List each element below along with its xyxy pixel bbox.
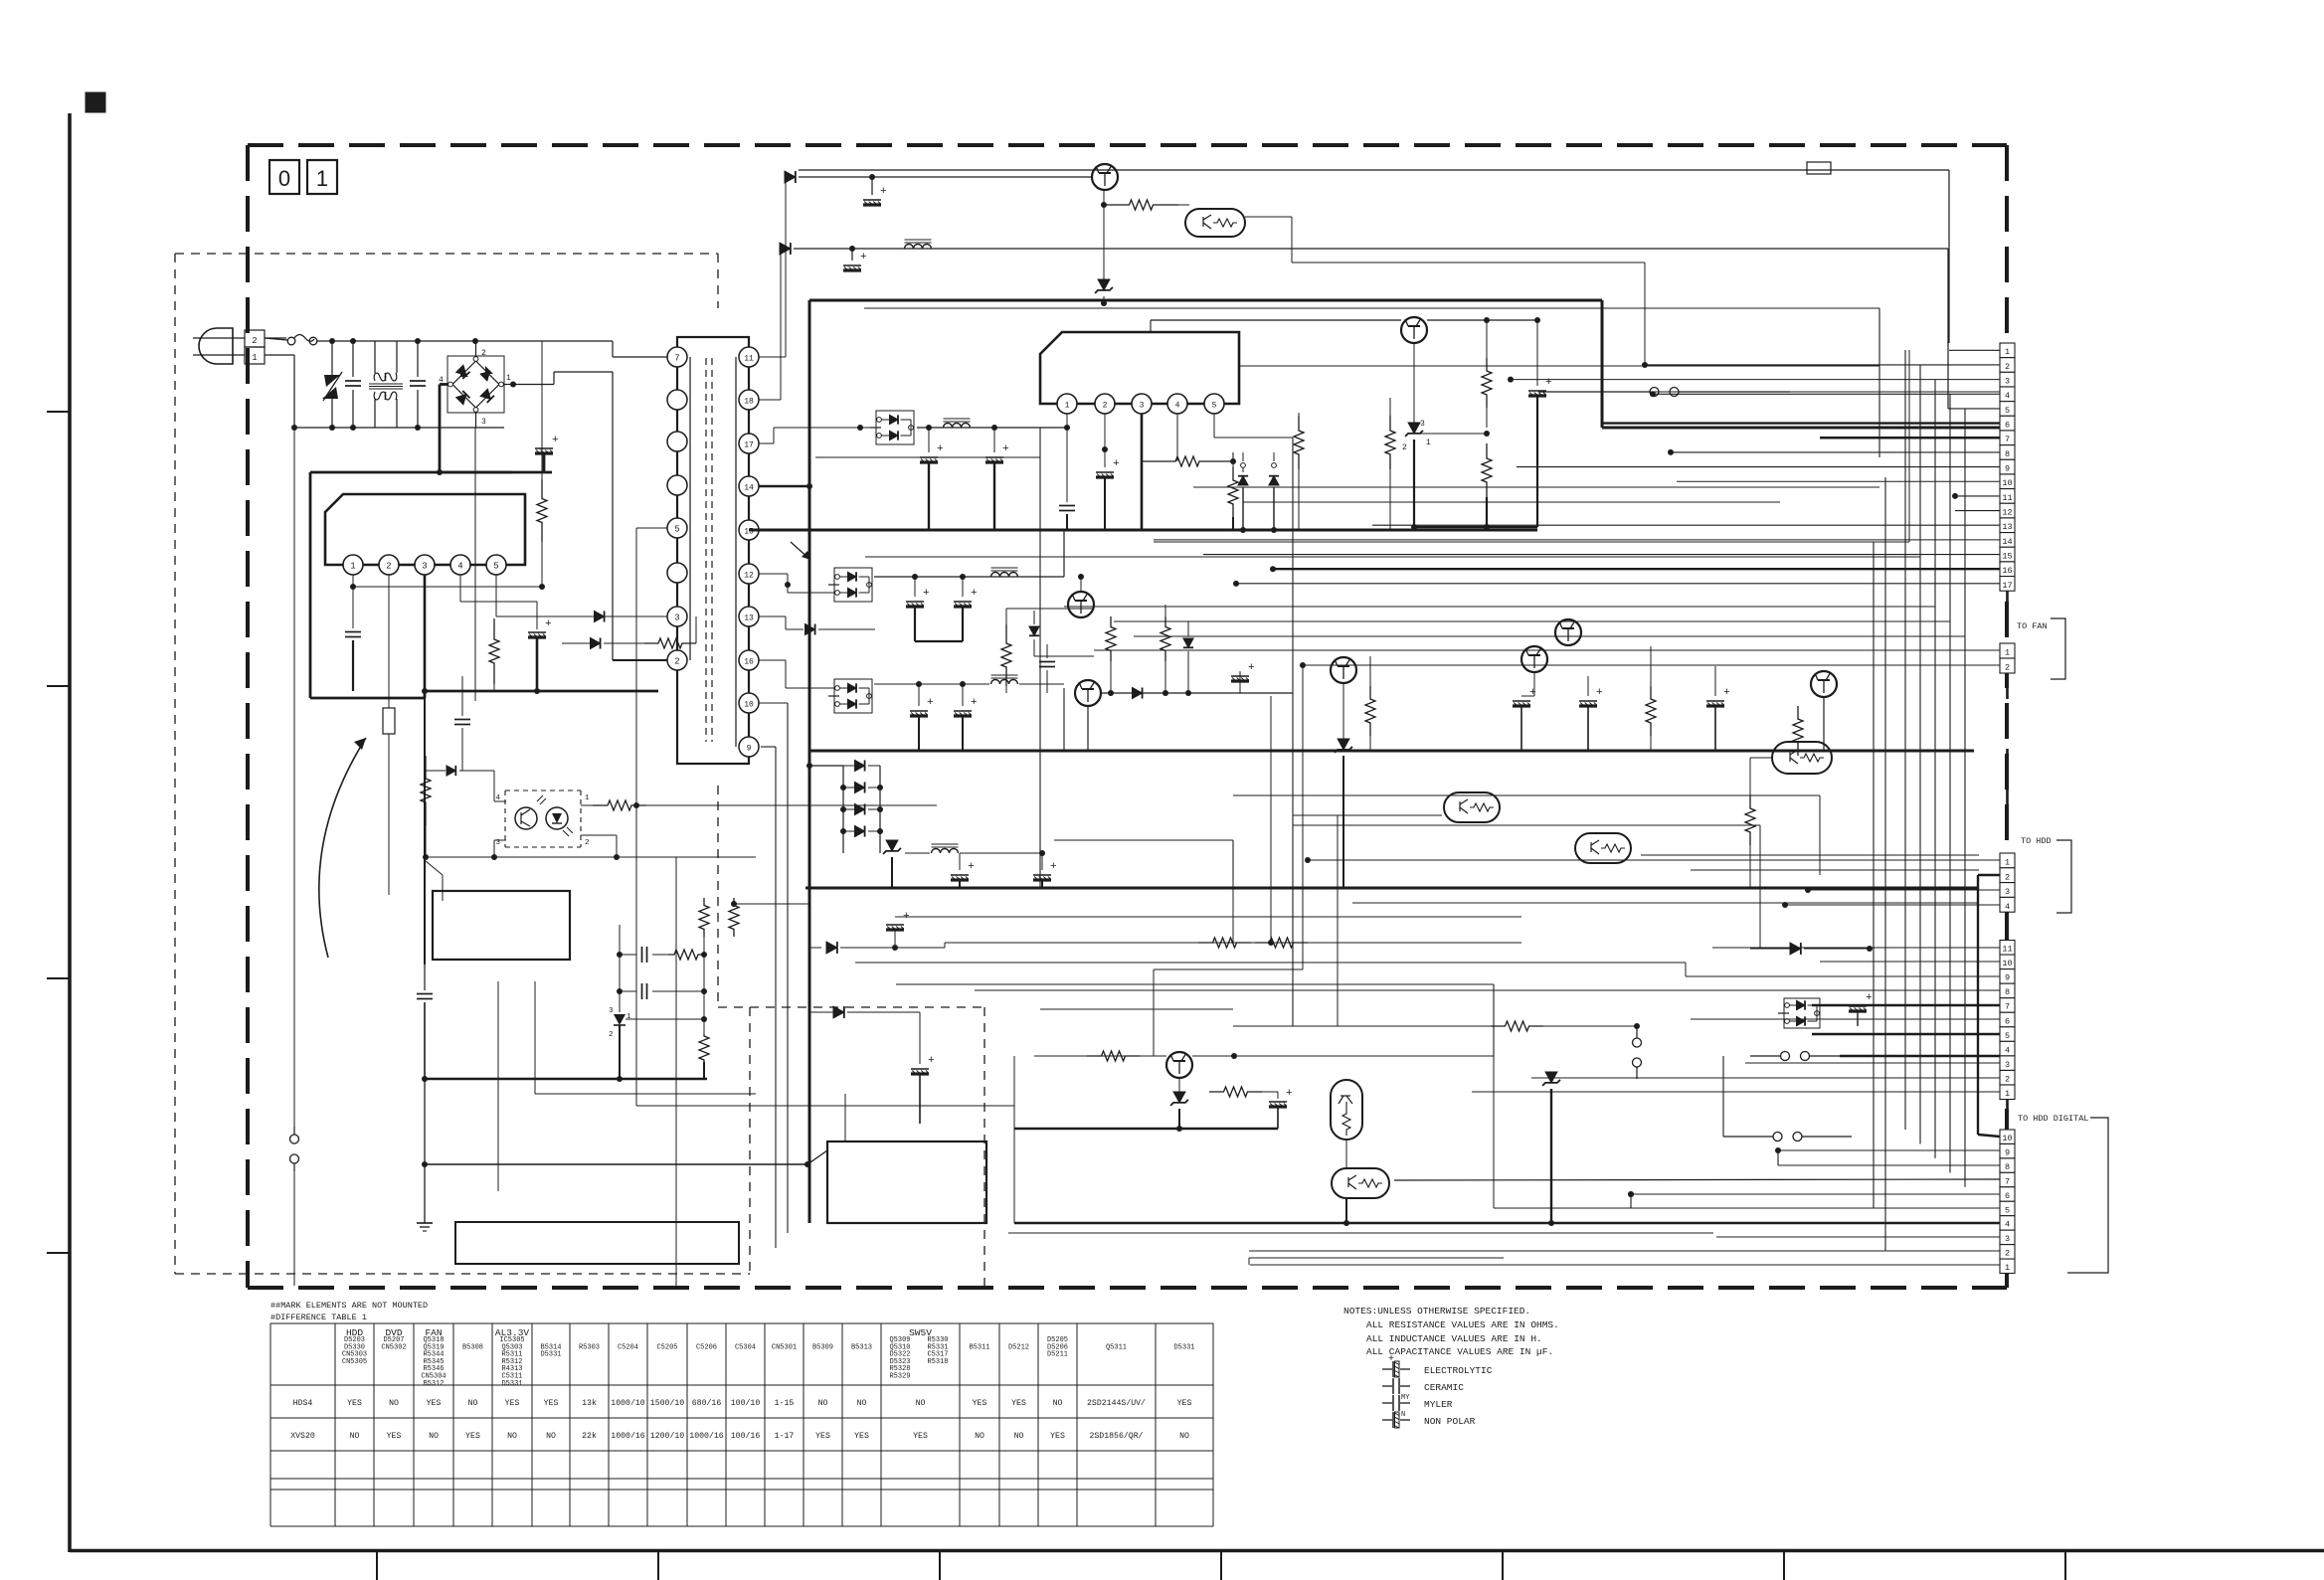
svg-text:22k: 22k: [582, 1431, 597, 1441]
IC901 pin3 wire heavy: [424, 575, 427, 691]
diode D951: [809, 1006, 920, 1064]
svg-text:NO: NO: [857, 1399, 867, 1408]
svg-text:1: 1: [2005, 1089, 2010, 1099]
resistor R920: [1104, 200, 1178, 210]
IC920 pin 5: [1204, 394, 1224, 414]
svg-text:+: +: [545, 618, 552, 630]
difference table grid: [270, 1323, 1213, 1526]
svg-text:3: 3: [2005, 1234, 2010, 1244]
diode D930: [759, 610, 875, 635]
cap C941: [1033, 853, 1057, 888]
svg-text:HDS4: HDS4: [293, 1399, 313, 1408]
resistor R927: [1294, 413, 1304, 530]
svg-text:2: 2: [1103, 402, 1108, 411]
svg-text:1: 1: [2005, 858, 2010, 868]
transistor Q950: [1166, 984, 1494, 1078]
notes heading: [1343, 1306, 1530, 1317]
T901 right pin 10: [739, 693, 759, 713]
wire heavy primary gnd: [310, 472, 552, 698]
wire bridge minus heavy: [437, 385, 512, 476]
svg-text:10: 10: [2002, 959, 2012, 968]
vertical left x640: [636, 805, 1014, 1106]
svg-text:4: 4: [457, 562, 462, 572]
svg-text:9: 9: [2005, 1147, 2010, 1157]
wire IC920 pin5: [1214, 414, 1293, 438]
jumper J961: [1628, 1056, 1852, 1208]
svg-text:3: 3: [609, 1007, 614, 1015]
notes line 1: [1366, 1319, 1559, 1330]
cap C950: [886, 911, 910, 951]
resistor R918: [699, 991, 709, 1079]
svg-text:2: 2: [481, 349, 486, 358]
resistor R906h: [644, 616, 696, 648]
transformer T901 outline: [677, 337, 749, 764]
IC920 pin 3: [1132, 394, 1152, 414]
svg-text:2: 2: [2005, 872, 2010, 882]
svg-text:7: 7: [2005, 435, 2010, 444]
svg-text:NO: NO: [468, 1399, 478, 1408]
T901 left pin nc: [667, 475, 687, 495]
transformer winding bar right: [735, 357, 737, 747]
wire hdd1: [1305, 857, 2000, 863]
long wire s: [1249, 1258, 1504, 1265]
T901 pin3 wire: [592, 804, 594, 806]
IC901 pin 4: [450, 555, 470, 575]
svg-text:8: 8: [2005, 1162, 2010, 1172]
connector CN901 tail: [2006, 591, 2009, 628]
svg-text:1-15: 1-15: [775, 1399, 795, 1408]
svg-text:6: 6: [2005, 1191, 2010, 1201]
svg-text:4: 4: [2005, 902, 2010, 912]
heavy bus 1230: [1014, 1222, 1840, 1225]
wire mid 820: [1293, 814, 1442, 816]
cap C930: [906, 577, 930, 641]
resistor R951: [1255, 938, 1308, 948]
bridge pin4: [439, 376, 452, 387]
wire 1005: [809, 998, 833, 1000]
IC901 pin 2: [379, 555, 399, 575]
svg-text:680/16: 680/16: [692, 1398, 722, 1408]
inductor L922: [991, 568, 1018, 577]
wire dd2 out: [874, 574, 1064, 580]
pill transistor Q952: [1332, 1168, 1389, 1198]
svg-text:3: 3: [1140, 402, 1145, 411]
resistor R930: [1106, 616, 1116, 693]
diode D906h: [562, 637, 644, 648]
T901 right pin 9: [739, 737, 759, 757]
long wire i: [1233, 795, 1820, 875]
wire rail 250: [794, 246, 1948, 252]
wire bottom left v: [497, 981, 499, 1191]
svg-text:XVS20: XVS20: [290, 1432, 315, 1441]
svg-text:8: 8: [2005, 449, 2010, 459]
connector CN904 11pin: [2000, 941, 2015, 1100]
long wire a: [815, 456, 1040, 458]
resistor R954: [1179, 1078, 1262, 1097]
svg-text:1-17: 1-17: [775, 1432, 795, 1441]
svg-text:TO HDD: TO HDD: [2021, 836, 2052, 846]
resistor R917: [668, 950, 704, 991]
wire dd out: [917, 425, 1067, 431]
svg-text:NO: NO: [429, 1432, 439, 1441]
ground rail y695: [310, 688, 658, 698]
notes line 2: [1366, 1333, 1542, 1344]
svg-text:+: +: [928, 1055, 935, 1067]
cap C940: [951, 853, 975, 888]
connector CN903 tail: [2006, 912, 2009, 940]
svg-text:##MARK ELEMENTS ARE NOT MOUNTE: ##MARK ELEMENTS ARE NOT MOUNTED: [270, 1301, 428, 1311]
cap C951: [911, 1055, 935, 1124]
table header labels: [346, 1327, 932, 1338]
svg-text:13: 13: [2002, 522, 2012, 532]
Q920 collector node: [1101, 190, 1107, 208]
svg-text:ALL INDUCTANCE VALUES ARE IN H: ALL INDUCTANCE VALUES ARE IN H.: [1366, 1333, 1542, 1344]
wire zener link: [1414, 431, 1490, 437]
svg-text:N: N: [1401, 1411, 1405, 1419]
notes line 3: [1366, 1346, 1553, 1357]
diode ladder D940-D943: [840, 760, 883, 853]
svg-text:CN5301: CN5301: [772, 1343, 797, 1351]
svg-text:YES: YES: [1177, 1399, 1192, 1408]
IC920 pin 1: [1057, 394, 1077, 414]
svg-text:2: 2: [386, 562, 391, 572]
frame tick bottom 1: [376, 1550, 378, 1580]
opto wire 2: [593, 835, 756, 857]
long wire w: [1040, 1008, 1233, 1010]
svg-text:2: 2: [2005, 663, 2010, 673]
svg-text:0: 0: [278, 166, 290, 191]
frame tick bottom 5: [1502, 1550, 1504, 1580]
svg-text:+: +: [1723, 687, 1730, 699]
svg-text:MY: MY: [1401, 1394, 1410, 1402]
long wire h: [825, 765, 1879, 767]
svg-text:B5312: B5312: [423, 1380, 444, 1388]
bridge rectifier box: [447, 356, 504, 413]
svg-text:NO: NO: [350, 1432, 360, 1441]
svg-text:3: 3: [2005, 887, 2010, 897]
svg-text:9: 9: [747, 745, 752, 754]
zener D944: [880, 835, 901, 888]
cap C943: [1579, 676, 1603, 751]
svg-text:17: 17: [2002, 581, 2012, 591]
table header sublabels: [342, 1336, 1195, 1388]
svg-text:1: 1: [626, 1013, 631, 1021]
resistor R942: [1745, 795, 1755, 888]
frame tick left 2: [47, 685, 70, 687]
long wire l: [895, 916, 1521, 918]
svg-text:C5204: C5204: [618, 1343, 638, 1351]
wire mid v1240: [1232, 880, 1234, 943]
diode D932: [1133, 687, 1143, 698]
IC901 pin1 wire: [350, 575, 542, 628]
wire row 697: [1101, 690, 1293, 696]
IC901 pin 1: [343, 555, 363, 575]
svg-text:2: 2: [2005, 1074, 2010, 1084]
wire top rail 178: [799, 174, 1092, 180]
wire 935 rail: [945, 942, 1521, 944]
primary gnd vertical: [424, 698, 426, 965]
wire mid 1032: [1233, 1025, 1491, 1027]
zener D922: [1402, 343, 1431, 527]
svg-text:+: +: [1866, 992, 1873, 1004]
fuse R931 box: [383, 708, 395, 895]
svg-text:3: 3: [2005, 377, 2010, 387]
cap C935: [1039, 644, 1055, 693]
cap C914: [617, 983, 707, 999]
svg-text:1: 1: [2005, 648, 2010, 658]
svg-text:ELECTROLYTIC: ELECTROLYTIC: [1424, 1365, 1493, 1376]
long wire r: [1008, 1223, 1713, 1233]
svg-text:2: 2: [585, 839, 590, 847]
jumper on x296: [290, 1127, 299, 1286]
resistor R941: [1646, 646, 1656, 751]
cap C932: [1231, 662, 1255, 693]
wire r955: [1429, 1025, 1469, 1027]
frame tick bottom 6: [1783, 1550, 1785, 1580]
svg-text:B5311: B5311: [969, 1343, 989, 1351]
svg-text:11: 11: [744, 355, 754, 364]
resistor R916: [729, 898, 809, 937]
wire long 990: [896, 984, 1631, 1208]
long wire c: [1154, 350, 1909, 542]
svg-text:+: +: [1596, 687, 1603, 699]
bridge pin3: [473, 408, 504, 428]
long wire x2: [1268, 696, 1274, 946]
svg-text:1: 1: [252, 353, 257, 363]
heavy 1135: [1014, 1126, 1278, 1132]
svg-text:+: +: [1113, 458, 1120, 470]
svg-text:1500/10: 1500/10: [650, 1398, 684, 1408]
svg-text:CERAMIC: CERAMIC: [1424, 1382, 1464, 1393]
label box bottom: [455, 1222, 739, 1264]
svg-text:YES: YES: [465, 1432, 480, 1441]
table row HDS4: [293, 1398, 1192, 1408]
long wire q: [1154, 969, 1303, 1056]
long wire n: [855, 963, 1686, 976]
svg-text:YES: YES: [913, 1432, 928, 1441]
hdd bracket: [2056, 840, 2071, 913]
svg-text:5: 5: [493, 562, 498, 572]
T901 left pin nc: [667, 563, 687, 583]
photo coupler pins: [494, 794, 593, 847]
IC901 pin2 wire: [388, 575, 390, 708]
svg-text:D5211: D5211: [1047, 1351, 1068, 1359]
dd rectifier DD920: [870, 411, 914, 444]
wire rail 250 down: [1947, 249, 1949, 409]
table note 1: [270, 1301, 428, 1311]
resistor R905: [537, 341, 547, 590]
T901 right pin 16: [739, 650, 759, 670]
label TO FAN: [2017, 621, 2048, 631]
cap C942: [1513, 687, 1536, 751]
feeder bundle right: [1874, 350, 1965, 1251]
page frame left border line: [68, 113, 72, 1552]
wire x478 down: [474, 428, 476, 701]
wire 1062 rail: [1034, 1055, 1154, 1057]
dd rectifier DD921: [791, 542, 872, 602]
long wire k: [1352, 902, 1979, 904]
cap C933: [910, 684, 934, 751]
resistor R926: [1228, 461, 1238, 530]
T901 pin2 wire heavy: [613, 372, 667, 660]
arrow curve: [319, 738, 366, 958]
wire v1020: [1013, 1056, 1015, 1223]
wire AC bottom rail: [291, 425, 475, 431]
cap C920: [863, 177, 887, 205]
zener D952: [1170, 1078, 1188, 1129]
long wire z1: [1153, 487, 1155, 542]
ground bus 755 heavy: [809, 750, 1974, 753]
wire fan2: [1300, 662, 2000, 668]
svg-text:+: +: [968, 861, 975, 873]
svg-text:1000/10: 1000/10: [611, 1398, 644, 1408]
svg-text:YES: YES: [347, 1399, 362, 1408]
svg-text:5: 5: [1212, 402, 1217, 411]
T901 left pin 3: [667, 607, 687, 626]
svg-text:+: +: [1529, 687, 1536, 699]
T901 right pin 11: [739, 347, 759, 367]
T901 pin7 wire: [613, 341, 667, 357]
wire IC920 pin2: [1102, 414, 1108, 467]
T901 pin10 wire: [759, 703, 788, 1233]
legend ceramic: [1382, 1378, 1464, 1394]
transistor Q941: [1521, 646, 1547, 696]
wire box middle up: [844, 1094, 846, 1141]
svg-text:YES: YES: [1011, 1399, 1026, 1408]
svg-text:+: +: [1002, 443, 1009, 455]
svg-text:R5329: R5329: [889, 1373, 910, 1381]
diode D933: [1029, 611, 1039, 656]
svg-text:D5331: D5331: [1173, 1343, 1194, 1351]
zener D912 link: [626, 1016, 707, 1022]
svg-text:YES: YES: [854, 1432, 869, 1441]
diode D931: [1183, 621, 1193, 693]
inductor L921: [944, 419, 971, 428]
cap C925: [985, 428, 1009, 530]
cap C921: [843, 249, 867, 270]
frame tick bottom 7: [2064, 1550, 2066, 1580]
T901 left pin nc: [667, 390, 687, 410]
svg-text:10: 10: [2002, 1134, 2012, 1143]
long wire e: [1064, 606, 1935, 608]
svg-text:NO: NO: [975, 1432, 984, 1441]
transformer winding bar left: [689, 357, 691, 660]
svg-text:10: 10: [744, 701, 754, 710]
transistor Q930: [1068, 574, 1094, 617]
long wire g: [1134, 635, 1965, 637]
long wire y2: [1337, 815, 1339, 1026]
svg-text:CN5302: CN5302: [381, 1343, 406, 1351]
pill transistor Q922: [1178, 205, 1245, 237]
wire IC920 pin3 heavy: [1141, 414, 1144, 530]
transistor Q940: [1331, 657, 1356, 741]
svg-text:YES: YES: [505, 1399, 520, 1408]
transformer core: [706, 358, 712, 742]
resistor R950: [1198, 938, 1251, 948]
svg-text:6: 6: [2005, 421, 2010, 431]
long wire o: [975, 990, 1631, 994]
svg-text:2: 2: [609, 1031, 614, 1039]
cap C909: [461, 771, 463, 795]
T901 right pin 18: [739, 390, 759, 410]
wire q931 down: [1087, 706, 1089, 751]
heavy step right: [1602, 300, 2000, 428]
cap C952: [1269, 1088, 1293, 1129]
Q922 out wire: [1245, 217, 1645, 364]
frame tick left 1: [47, 411, 70, 413]
transistor Q920: [799, 164, 1949, 190]
cap C934: [954, 684, 978, 751]
wire 322 rail: [1151, 317, 1540, 323]
capacitor filter 1: [345, 341, 361, 428]
op-amp IC901 outline: [325, 494, 525, 565]
svg-text:NO: NO: [818, 1399, 828, 1408]
svg-text:B5313: B5313: [851, 1343, 872, 1351]
resistor R923: [1482, 434, 1492, 527]
pill transistor Q943: [1772, 742, 1832, 774]
resistor R915: [699, 898, 709, 955]
svg-text:TO FAN: TO FAN: [2017, 621, 2048, 631]
wire d924 top: [1243, 452, 1293, 461]
svg-text:16: 16: [2002, 566, 2012, 576]
wires to CN905: [1249, 1147, 2000, 1265]
diode D907: [426, 766, 494, 801]
svg-text:+: +: [1248, 662, 1255, 674]
legend myler: [1382, 1394, 1453, 1411]
zener D953: [1542, 1026, 1560, 1226]
transistor Q942: [1555, 619, 1581, 645]
cap C907: [454, 676, 470, 771]
resistor R952: [1491, 1021, 1640, 1031]
wire q943: [1750, 758, 1772, 795]
wire live: [265, 337, 286, 339]
sheet ref box 0: [269, 160, 299, 194]
wire 12 to dd2: [759, 574, 834, 593]
dd rectifier DD960: [1778, 998, 1820, 1028]
svg-text:#DIFFERENCE TABLE 1: #DIFFERENCE TABLE 1: [270, 1313, 367, 1322]
vertical v1: [1759, 577, 1761, 676]
photo coupler PC901 dashed box: [505, 790, 581, 847]
board outline dashed border: [248, 145, 2007, 1288]
main bus vertical heavy: [808, 300, 811, 1223]
cap C960: [1849, 992, 1873, 1026]
svg-text:12: 12: [2002, 507, 2012, 517]
svg-text:15: 15: [2002, 551, 2012, 561]
svg-text:YES: YES: [544, 1399, 559, 1408]
ground bus 893 heavy: [805, 887, 1979, 890]
T901 right pin 14: [739, 476, 759, 496]
svg-text:YES: YES: [427, 1399, 442, 1408]
sheet ref box 1: [307, 160, 337, 194]
svg-text:C5304: C5304: [735, 1343, 756, 1351]
svg-text:1000/16: 1000/16: [689, 1431, 723, 1441]
svg-text:7: 7: [674, 354, 679, 364]
op-amp IC920 outline: [1040, 332, 1239, 404]
frame tick bottom 3: [939, 1550, 941, 1580]
svg-text:CN5305: CN5305: [342, 1358, 367, 1366]
IC920 pin 2: [1095, 394, 1115, 414]
pill transistor Q951: [1331, 1080, 1362, 1140]
ground bus 533 heavy: [749, 529, 1537, 532]
vertical v5: [1307, 825, 1309, 860]
svg-text:YES: YES: [1050, 1432, 1065, 1441]
svg-text:100/10: 100/10: [731, 1398, 761, 1408]
svg-text:D5331: D5331: [540, 1351, 561, 1359]
cap C927: [1096, 458, 1120, 530]
long wire b: [1239, 365, 1879, 367]
cap C931: [954, 577, 978, 641]
hdd digital bracket: [2067, 1118, 2108, 1273]
